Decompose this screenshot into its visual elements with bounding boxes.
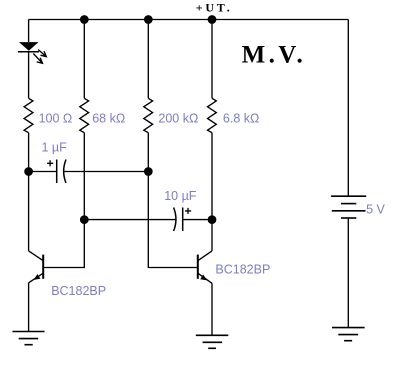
battery BT1 5V xyxy=(331,196,366,327)
wire: R3 to node C xyxy=(147,133,149,172)
node: junction dot top 200k xyxy=(145,16,152,23)
LED D1 xyxy=(18,42,46,63)
ground: right (battery minus) xyxy=(332,328,365,341)
wire: R4 to node D xyxy=(211,133,213,220)
svg-text:BC182BP: BC182BP xyxy=(51,284,106,298)
wire: LED cathode to R1 xyxy=(28,52,30,99)
wire: rail to R3 xyxy=(147,20,149,99)
wire: R1 to node A xyxy=(28,133,30,172)
node D: junction dot xyxy=(208,216,215,223)
wire: +UT top rail xyxy=(29,19,349,21)
node: junction dot top 6.8k xyxy=(208,16,215,23)
wire: node A down to Q1 collector xyxy=(28,172,30,251)
resistor R2 68k xyxy=(80,98,89,132)
wire: rail to LED anode xyxy=(28,20,30,43)
node: junction dot top 68k xyxy=(81,16,88,23)
ground: middle (Q2 emitter) xyxy=(196,335,229,348)
resistor R3 200k xyxy=(144,98,153,132)
node A: junction dot xyxy=(25,168,32,175)
wire: rail to R4 xyxy=(211,20,213,99)
node C: junction dot xyxy=(145,168,152,175)
node B: junction dot xyxy=(81,216,88,223)
svg-text:M.V.: M.V. xyxy=(242,41,307,68)
svg-text:BC182BP: BC182BP xyxy=(215,262,270,276)
wire: node C down and right to Q2 base xyxy=(148,172,198,268)
svg-text:6.8 kΩ: 6.8 kΩ xyxy=(223,112,259,126)
svg-text:200 kΩ: 200 kΩ xyxy=(158,112,198,126)
svg-text:10 µF: 10 µF xyxy=(164,189,197,203)
wire: node B down and left to Q1 base xyxy=(43,220,84,268)
wire: node D down to Q2 collector xyxy=(211,220,213,251)
svg-text:5 V: 5 V xyxy=(366,203,385,217)
resistor R1 100 ohm xyxy=(24,98,33,132)
ground: left (Q1 emitter) xyxy=(12,332,44,345)
svg-text:1 µF: 1 µF xyxy=(42,141,68,155)
wire: R2 to node B xyxy=(83,133,85,220)
resistor R4 6.8k xyxy=(208,98,217,132)
wire: rail to R2 xyxy=(83,20,85,99)
svg-text:68 kΩ: 68 kΩ xyxy=(92,111,125,125)
svg-text:+UT.: +UT. xyxy=(196,0,233,14)
capacitor C2 10uF xyxy=(84,208,212,232)
wire: battery top drop xyxy=(347,20,349,197)
capacitor C1 1uF xyxy=(29,160,149,184)
transistor Q2 BC182BP xyxy=(198,251,212,335)
svg-text:100 Ω: 100 Ω xyxy=(39,111,73,125)
transistor Q1 BC182BP xyxy=(29,251,44,332)
